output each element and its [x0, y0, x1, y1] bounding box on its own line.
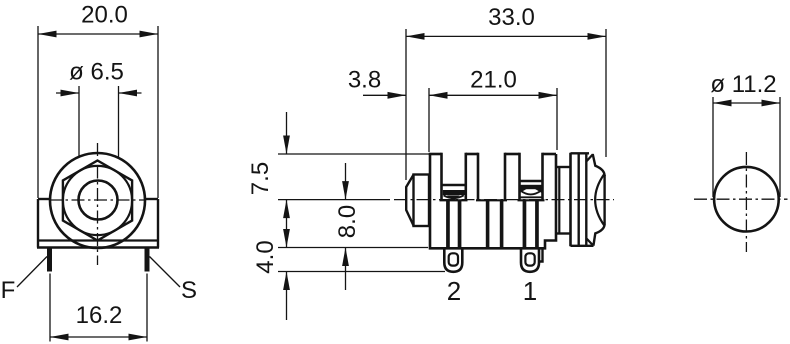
dimension 4.0 arrows: [283, 229, 290, 248]
contact 2 notch arc: [521, 191, 542, 195]
pin S (right): [145, 248, 150, 272]
dimension 21.0 extension line right: [556, 88, 558, 150]
dimension 11.2 line: [713, 102, 780, 104]
nut left face: [569, 153, 572, 247]
dimension 16.2 line: [50, 336, 147, 338]
bracket front edge line: [37, 239, 159, 241]
dimension 11.2 extension line left: [712, 97, 714, 197]
dimension 7.5 arrows: [286, 112, 288, 154]
bracket bottom edge: [37, 246, 159, 248]
bushing circle: [714, 167, 779, 232]
dimension 33.0 extension line right: [605, 29, 607, 157]
side view center line: [394, 199, 614, 201]
svg-text:7.5: 7.5: [247, 162, 274, 195]
circle horizontal center line: [694, 198, 788, 200]
extension line center y199: [278, 199, 390, 201]
nut bottom corner cut: [586, 238, 593, 246]
contact 1 top line: [443, 184, 466, 186]
horizontal center line: [49, 199, 146, 201]
dimension 20.0 extension line left: [37, 26, 39, 198]
contact 2 top line: [520, 180, 542, 182]
svg-text:2: 2: [447, 276, 461, 306]
pin 1 lug: [521, 248, 539, 271]
extension line bottom y247.5: [278, 247, 428, 249]
contact 2 side wedge left: [520, 189, 527, 193]
dimension 6.5 left arrow: [56, 92, 79, 94]
svg-text:ø 11.2: ø 11.2: [710, 71, 776, 98]
pin F (left): [47, 248, 52, 272]
nut bottom edge: [571, 245, 594, 247]
vertical center line: [97, 143, 99, 265]
rear nose trapezoid: [406, 175, 413, 226]
extension line pin end y271.5: [278, 271, 445, 273]
dimension 11.2 extension line right: [779, 97, 781, 197]
body bottom edge with step: [429, 234, 556, 249]
hex nut: [63, 161, 132, 241]
washer left edge: [558, 167, 560, 234]
nut hex arc: [595, 174, 604, 226]
leader line S: [150, 257, 181, 288]
svg-text:16.2: 16.2: [76, 302, 123, 329]
nut bottom chamfer: [593, 224, 604, 246]
contact 2 black band: [520, 185, 542, 189]
dimension 16.2 extension line left: [49, 274, 51, 342]
stub right of pin 1: [540, 248, 543, 261]
dimension 6.5 extension line right: [118, 86, 120, 199]
bracket body rectangle: [38, 198, 51, 200]
jack bore circle 6.5: [79, 181, 118, 220]
contact legs slot2: [486, 201, 490, 248]
dimension 6.5 extension line left: [78, 86, 80, 199]
body right edge: [555, 154, 558, 234]
tower walls: [440, 153, 443, 200]
dimension 33.0 extension line left: [405, 29, 407, 180]
collar bottom edge: [556, 232, 571, 234]
nut top chamfer: [593, 154, 605, 176]
svg-text:21.0: 21.0: [470, 67, 517, 94]
contact 1 triangle: [447, 195, 460, 200]
extension line top of body y154: [278, 153, 442, 155]
contact 1 black band: [443, 190, 465, 195]
rear cap rectangle: [414, 175, 430, 227]
body outer circle (nut OD): [50, 153, 145, 248]
contact 1 arc: [444, 195, 464, 198]
dimension 20.0 arrow right: [140, 31, 159, 38]
svg-text:8.0: 8.0: [334, 205, 361, 238]
dimension 8.0 arrows: [345, 163, 347, 200]
dimension 21.0 extension line left: [428, 88, 430, 152]
collar top edge: [556, 166, 571, 168]
dimension 20.0 line: [38, 33, 158, 35]
nut face line 1: [578, 153, 580, 246]
nut top edge: [571, 152, 590, 154]
circle vertical center line: [745, 152, 747, 252]
nut face line 2: [585, 153, 587, 246]
dimension 21.0 line: [429, 94, 557, 96]
svg-text:20.0: 20.0: [81, 2, 128, 29]
svg-text:3.8: 3.8: [348, 67, 381, 94]
pin 2 lug: [444, 248, 462, 271]
svg-text:F: F: [1, 277, 16, 304]
contact 2 side wedge right: [535, 189, 542, 193]
leader line F: [17, 257, 47, 288]
slot bottoms: [440, 199, 468, 201]
svg-text:S: S: [181, 277, 197, 304]
dimension 16.2 extension line right: [146, 274, 148, 342]
svg-text:33.0: 33.0: [488, 4, 535, 31]
pin 2 hole: [449, 253, 458, 265]
body left edge: [429, 154, 432, 248]
dimension 3.8 arrow: [363, 94, 406, 96]
svg-text:ø 6.5: ø 6.5: [69, 59, 124, 86]
dimension 20.0 extension line right: [157, 26, 159, 198]
pin 1 hole: [525, 253, 534, 265]
nut top corner cut: [586, 154, 593, 161]
contact 2 lower line: [520, 196, 542, 198]
svg-text:1: 1: [523, 276, 537, 306]
dimension 33.0 line: [406, 35, 606, 37]
nut inscribed circle: [63, 166, 132, 235]
contact legs slot3: [523, 201, 527, 248]
svg-text:4.0: 4.0: [252, 240, 279, 273]
nut right edge: [603, 175, 605, 225]
contact legs slot1: [446, 201, 450, 248]
dimension 6.5 right arrow: [119, 92, 142, 94]
dimension 20.0 arrow left: [38, 31, 57, 38]
body top comb: tower tops: [429, 153, 442, 156]
